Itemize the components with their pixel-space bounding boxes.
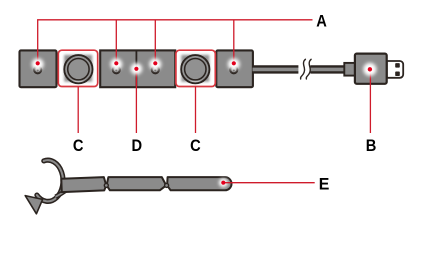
strip segment S6 [216,50,253,87]
red dot A3 [153,61,157,65]
red dot A2 [114,61,118,65]
glow dot A4 [228,58,240,70]
glow dot B [363,63,376,76]
sensor C2 outer ring [181,55,209,83]
svg-text:D: D [132,136,143,155]
USB body U1 [355,54,387,84]
glow dot E [219,178,228,187]
strip segments S3-S4 [100,50,175,87]
red dot B [368,67,372,71]
callout line B [369,69,371,133]
glow dot A1 [32,58,44,70]
glow dot A3 [149,58,161,70]
mic M2 ring [113,66,120,73]
highlight red rect C2 [176,50,215,86]
svg-text:B: B [366,136,377,155]
USB strain relief [344,63,355,76]
callout line C2 [195,87,197,133]
cable break squiggle 1 [301,59,306,79]
side bar 3 (right, rounded end) [167,177,231,190]
USB contact hole 2 [395,72,400,77]
sensor pad C2 [181,55,209,82]
curl band filler to bar underside [56,191,66,197]
side bar 1 (left, tucks into curl) [61,177,106,192]
sensor C1 inner ring [68,58,89,79]
mic M4 ring [230,66,237,73]
svg-text:C: C [190,136,201,155]
curl arrowhead [25,196,42,214]
highlight red rect C1 [58,50,97,86]
red dot A1 [36,61,40,65]
sensor pad C1 [64,55,92,82]
cable left of break [253,66,299,72]
side bar 2 (middle) [107,177,167,190]
strip segment S1 [20,50,57,87]
highlight glow C1 [62,53,95,85]
sensor C2 inner ring [185,58,206,79]
red dot D [134,67,138,71]
mic M3 ring [152,66,159,73]
separator S3/S4 [135,50,137,87]
callout polyline A [38,20,313,64]
cable break squiggle 2 [306,59,311,79]
sensor C1 outer ring [64,55,92,83]
callout line D [135,69,137,133]
svg-text:E: E [319,175,330,194]
callout line E [225,182,315,184]
glow dot D [131,63,143,75]
curl band core [37,160,63,201]
USB contact hole 1 [395,63,400,68]
glow dot A2 [110,58,122,70]
cable right of break [310,66,346,72]
hinge pin P1 [104,183,108,187]
red dot E [221,181,225,185]
curl band dark [37,160,63,201]
svg-text:C: C [73,136,84,155]
callout line C1 [77,87,79,133]
hinge pin P2 [165,183,169,187]
highlight glow C2 [179,53,212,85]
mic M1 ring [34,66,41,73]
USB plug [387,61,403,78]
svg-text:A: A [316,12,327,31]
red dot A4 [232,61,236,65]
